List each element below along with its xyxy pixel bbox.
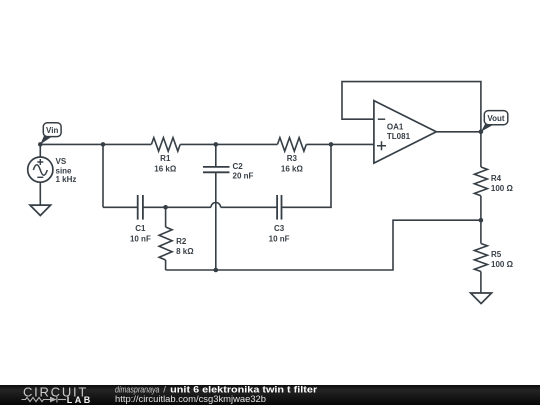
svg-text:Vout: Vout xyxy=(487,114,505,123)
svg-text:C3: C3 xyxy=(274,224,285,233)
svg-text:R2: R2 xyxy=(176,237,187,246)
svg-text:http://circuitlab.com/csg3kmjw: http://circuitlab.com/csg3kmjwae32b xyxy=(115,394,266,405)
svg-text:C2: C2 xyxy=(233,162,244,171)
svg-text:10 nF: 10 nF xyxy=(130,234,151,243)
svg-text:100 Ω: 100 Ω xyxy=(491,260,514,269)
svg-text:R1: R1 xyxy=(160,154,171,163)
svg-text:R5: R5 xyxy=(491,250,502,259)
svg-text:VS: VS xyxy=(56,157,67,166)
svg-text:R3: R3 xyxy=(287,154,298,163)
svg-text:8 kΩ: 8 kΩ xyxy=(176,247,194,256)
svg-text:16 kΩ: 16 kΩ xyxy=(154,164,177,173)
svg-text:TL081: TL081 xyxy=(387,132,411,141)
svg-text:R4: R4 xyxy=(491,174,502,183)
svg-text:20 nF: 20 nF xyxy=(233,171,254,180)
svg-text:C1: C1 xyxy=(135,224,146,233)
svg-text:OA1: OA1 xyxy=(387,123,404,132)
svg-text:10 nF: 10 nF xyxy=(269,234,290,243)
svg-text:1 kHz: 1 kHz xyxy=(56,175,77,184)
svg-text:sine: sine xyxy=(56,166,73,175)
svg-text:16 kΩ: 16 kΩ xyxy=(281,164,304,173)
svg-text:Vin: Vin xyxy=(46,126,58,135)
svg-text:LAB: LAB xyxy=(67,395,91,405)
svg-text:100 Ω: 100 Ω xyxy=(491,184,514,193)
